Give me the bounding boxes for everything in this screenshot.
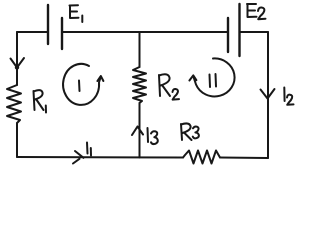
label loop II	[210, 74, 217, 87]
label E2	[247, 4, 266, 19]
label R3	[181, 123, 199, 140]
current arrow I3 (middle branch, up)	[132, 127, 143, 136]
label R2	[159, 74, 179, 99]
wire bottom-left segment	[17, 156, 183, 159]
wire top-left segment	[17, 31, 48, 33]
wire bottom-right segment	[220, 157, 268, 160]
wire middle branch lower	[139, 103, 141, 158]
label I3	[148, 128, 158, 144]
mesh loop arrow I	[63, 64, 103, 105]
label I1	[87, 143, 91, 156]
label I2	[284, 88, 293, 105]
label E1	[70, 5, 83, 22]
label R1	[34, 90, 47, 112]
resistor R2	[133, 67, 146, 103]
mesh loop arrow II	[189, 58, 234, 96]
battery E2	[228, 4, 240, 56]
battery E1	[48, 5, 62, 49]
wire top-right segment	[240, 31, 268, 33]
resistor R3	[183, 151, 220, 164]
label loop I	[78, 81, 81, 92]
wire left branch lower	[16, 123, 18, 157]
current arrow down (left branch)	[11, 58, 25, 70]
wire middle branch upper	[139, 32, 141, 67]
wire right branch	[267, 32, 269, 158]
wire top-middle segment	[62, 31, 228, 33]
wire left branch upper	[16, 32, 18, 85]
current arrow I1 (bottom wire, right)	[73, 151, 84, 164]
resistor R1	[7, 85, 21, 123]
current arrow I2 (right branch, down)	[261, 89, 275, 99]
